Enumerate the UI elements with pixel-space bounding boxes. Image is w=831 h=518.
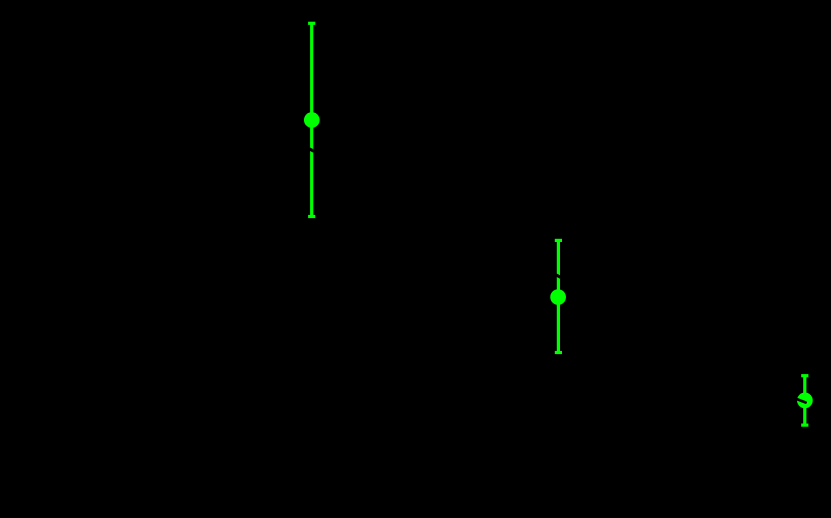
error bar 1 stem	[310, 23, 313, 216]
error bar 3 bottom cap	[801, 424, 808, 427]
black fit line end segment (crosses data marker 3)	[795, 398, 806, 402]
error bar 2 top cap	[555, 239, 562, 242]
data marker 2	[550, 289, 566, 305]
error bar 1 bottom cap	[308, 215, 315, 218]
error bar 3 top cap	[801, 374, 808, 377]
error bar 2 stem	[557, 240, 560, 352]
error bar 2 bottom cap	[555, 351, 562, 354]
data marker 1	[304, 112, 320, 128]
error bar 3 stem	[803, 376, 806, 425]
error bar 1 top cap	[308, 22, 315, 25]
data marker 3	[797, 393, 813, 409]
black fit line (drawn over the green, cuts notches in error bars 1 and 2)	[100, 42, 790, 395]
